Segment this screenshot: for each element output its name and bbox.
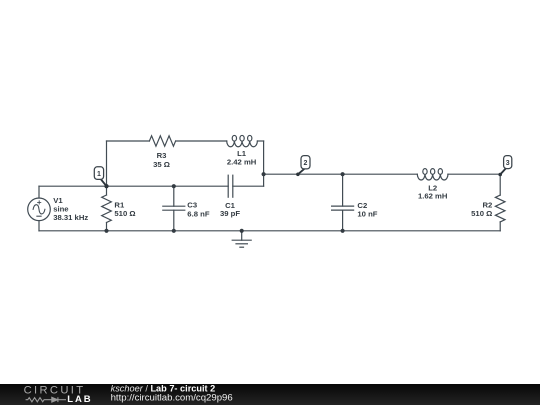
wire left vertical (node 1 up) xyxy=(106,141,108,186)
resistor R2 xyxy=(495,195,505,222)
svg-text:C3: C3 xyxy=(187,201,197,210)
svg-text:510 Ω: 510 Ω xyxy=(114,209,135,218)
svg-text:35 Ω: 35 Ω xyxy=(153,160,170,169)
capacitor C1 xyxy=(228,175,233,197)
junction C3 bottom xyxy=(172,229,176,233)
wire V1 bottom xyxy=(38,221,40,231)
junction C3 top xyxy=(172,184,176,188)
wire R1 top xyxy=(106,186,108,195)
junction L1/C1 corner tee xyxy=(262,172,266,176)
node 1 flag xyxy=(94,167,108,188)
svg-text:10 nF: 10 nF xyxy=(357,209,377,218)
svg-text:V1: V1 xyxy=(53,196,63,205)
svg-text:6.8 nF: 6.8 nF xyxy=(187,209,210,218)
wire C2 bottom xyxy=(342,210,344,231)
wire right rail to L2 xyxy=(264,173,418,175)
resistor R3 xyxy=(149,136,175,146)
svg-text:2: 2 xyxy=(304,160,308,167)
wire C3 top xyxy=(173,186,175,206)
svg-text:2.42 mH: 2.42 mH xyxy=(227,158,257,167)
svg-text:1.62 mH: 1.62 mH xyxy=(418,192,448,201)
wire bottom rail xyxy=(39,230,500,232)
capacitor C2 xyxy=(332,206,354,210)
junction C2 bottom xyxy=(341,229,345,233)
svg-text:L1: L1 xyxy=(237,149,247,158)
inductor L1 xyxy=(227,135,258,146)
ground xyxy=(232,231,251,247)
capacitor C3 xyxy=(163,206,185,210)
wire C3 bottom xyxy=(173,210,175,231)
junction R1 bottom xyxy=(104,229,108,233)
wire C2 top xyxy=(342,174,344,206)
resistor R1 xyxy=(102,195,112,223)
svg-text:LAB: LAB xyxy=(67,394,92,405)
svg-text:510 Ω: 510 Ω xyxy=(471,209,492,218)
svg-text:http://circuitlab.com/cq29p96: http://circuitlab.com/cq29p96 xyxy=(111,392,233,403)
svg-text:R2: R2 xyxy=(482,201,492,210)
wire R1 bottom xyxy=(106,223,108,231)
wire top rail left segment xyxy=(107,140,150,142)
wire right vertical (L1 down to C1) xyxy=(263,141,265,186)
CircuitLab logo resistor-diode symbol xyxy=(26,397,66,402)
junction C2 top xyxy=(341,172,345,176)
svg-text:R3: R3 xyxy=(157,151,167,160)
svg-text:39 pF: 39 pF xyxy=(220,209,240,218)
inductor L2 xyxy=(417,169,448,180)
wire V1 top xyxy=(38,186,40,198)
node 2 flag xyxy=(296,156,310,177)
wire right rail L2 to corner xyxy=(448,173,500,175)
footer bar xyxy=(0,384,540,405)
wire top rail right segment xyxy=(257,140,263,142)
wire R2 top xyxy=(499,174,501,195)
wire middle rail C1 to corner xyxy=(233,185,264,187)
wire R2 bottom xyxy=(499,222,501,231)
node 3 flag xyxy=(498,156,511,177)
svg-text:38.31 kHz: 38.31 kHz xyxy=(53,213,88,222)
junction ground xyxy=(240,229,244,233)
wire middle rail V1 to C1 xyxy=(39,185,228,187)
junction node 1 xyxy=(104,184,108,188)
svg-text:3: 3 xyxy=(506,160,510,167)
wire top rail mid segment xyxy=(176,140,227,142)
voltage source V1 xyxy=(28,198,51,221)
svg-text:1: 1 xyxy=(97,171,101,178)
